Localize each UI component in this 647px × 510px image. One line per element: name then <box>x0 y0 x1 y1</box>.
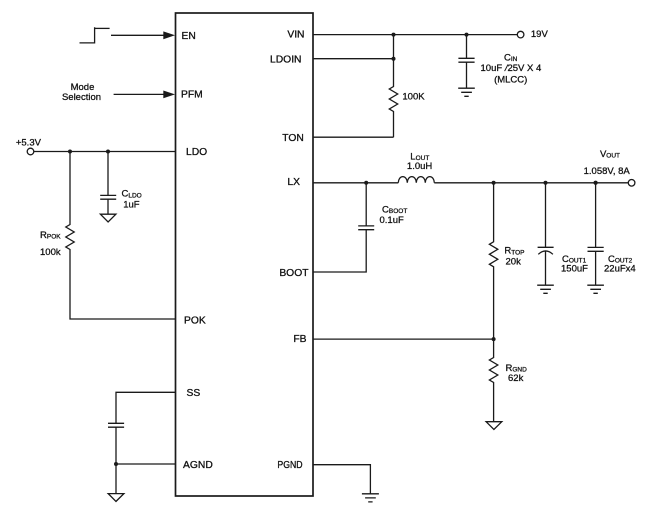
svg-text:22uFx4: 22uFx4 <box>604 263 636 274</box>
svg-text:100K: 100K <box>402 91 425 102</box>
svg-text:POK: POK <box>184 315 206 326</box>
svg-text:+5.3V: +5.3V <box>16 138 42 149</box>
svg-text:100k: 100k <box>40 247 61 258</box>
svg-text:20k: 20k <box>506 256 522 267</box>
svg-text:PGND: PGND <box>277 460 302 471</box>
svg-text:LDO: LDO <box>186 147 207 158</box>
svg-text:1uF: 1uF <box>123 199 140 210</box>
svg-text:1.0uH: 1.0uH <box>407 161 432 172</box>
svg-text:LDOIN: LDOIN <box>270 54 301 65</box>
svg-text:10uF /25V X 4: 10uF /25V X 4 <box>481 63 542 74</box>
svg-text:AGND: AGND <box>183 460 213 471</box>
svg-text:SS: SS <box>187 388 201 399</box>
svg-text:19V: 19V <box>531 29 549 40</box>
svg-text:FB: FB <box>293 334 306 345</box>
svg-text:VIN: VIN <box>287 29 304 40</box>
svg-text:1.058V, 8A: 1.058V, 8A <box>584 166 631 177</box>
svg-text:EN: EN <box>182 31 196 42</box>
svg-text:Mode: Mode <box>71 82 95 93</box>
svg-text:PFM: PFM <box>181 89 203 100</box>
svg-text:BOOT: BOOT <box>279 268 309 279</box>
svg-text:(MLCC): (MLCC) <box>494 74 527 85</box>
svg-text:TON: TON <box>282 133 304 144</box>
svg-text:Selection: Selection <box>62 92 101 103</box>
svg-text:150uF: 150uF <box>561 263 588 274</box>
svg-text:0.1uF: 0.1uF <box>380 215 404 226</box>
svg-text:LX: LX <box>287 177 300 188</box>
svg-text:62k: 62k <box>508 373 524 384</box>
